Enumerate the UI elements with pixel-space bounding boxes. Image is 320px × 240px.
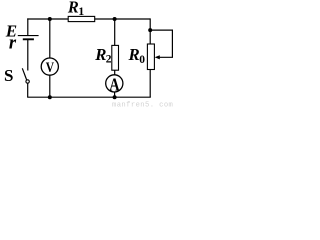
svg-text:r: r	[9, 33, 17, 53]
svg-text:manfren5. com: manfren5. com	[112, 101, 173, 108]
svg-text:R: R	[128, 45, 140, 64]
svg-text:V: V	[46, 60, 55, 76]
svg-text:0: 0	[139, 54, 145, 66]
svg-text:R: R	[94, 45, 106, 64]
svg-text:S: S	[4, 66, 13, 85]
svg-text:A: A	[109, 74, 119, 94]
svg-text:R: R	[67, 0, 79, 17]
svg-text:1: 1	[78, 4, 84, 18]
svg-text:2: 2	[106, 53, 112, 65]
